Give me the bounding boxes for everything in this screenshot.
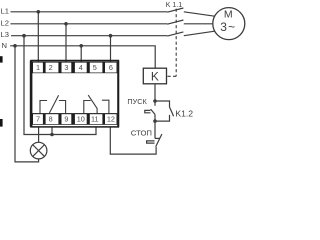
wire terminal 12 to stop loop [110, 127, 156, 154]
svg-text:L2: L2 [1, 19, 9, 28]
terminal 2 [46, 63, 59, 73]
contact K1.2 arm [170, 107, 174, 116]
node N-left [13, 44, 17, 48]
lamp HL [30, 142, 47, 159]
wire L3 to terminal 6 [110, 36, 112, 62]
terminal 11 [90, 114, 103, 124]
terminal 5 [90, 63, 103, 73]
mechanical link dashed [175, 9, 177, 77]
node L3-left [22, 34, 26, 38]
relay contact 7-8-9 fixed 9 [59, 101, 66, 114]
terminal 9 [62, 114, 72, 124]
svg-text:СТОП: СТОП [131, 129, 152, 138]
wire N rail to coil K [10, 46, 155, 68]
svg-text:L3: L3 [1, 30, 9, 39]
node N-terminal4 [79, 44, 83, 48]
contact K1.1 pole 3 arm [167, 32, 183, 36]
start button actuator [145, 110, 151, 112]
motor M [213, 8, 245, 40]
svg-text:4: 4 [79, 63, 83, 72]
relay contact 7-8-9 arm 8 [49, 95, 58, 113]
svg-text:N: N [2, 41, 7, 50]
stop button fixed nub [155, 137, 160, 139]
wire terminal 7 to lamp [38, 127, 40, 142]
contactor coil K [143, 68, 166, 84]
relay contact 10-11-12 arm 11 [88, 95, 97, 113]
contactor contacts K1.1 [166, 2, 215, 76]
svg-text:K: K [151, 69, 159, 83]
node branch bottom [153, 119, 157, 123]
wire pole3 to motor [184, 31, 215, 36]
din rail mark upper [0, 56, 3, 62]
wire pole2 to motor [184, 23, 213, 25]
svg-text:5: 5 [93, 63, 97, 72]
terminal 4 [75, 63, 87, 73]
relay device box [31, 61, 118, 127]
relay contact 10-11-12 fixed 12 [102, 100, 109, 113]
relay contact 10-11-12 fixed 10 [84, 101, 91, 114]
terminal 12 [105, 114, 117, 124]
node L1-terminal1 [37, 10, 41, 14]
stop button arm [156, 134, 162, 147]
svg-text:10: 10 [77, 115, 85, 124]
svg-text:ПУСК: ПУСК [127, 97, 147, 106]
svg-text:3: 3 [64, 63, 68, 72]
svg-text:K1.2: K1.2 [175, 109, 193, 119]
svg-text:7: 7 [36, 115, 40, 124]
svg-text:M: M [224, 9, 233, 21]
wire K1.2 branch top [155, 101, 170, 107]
wire L1 to terminal 1 [37, 12, 39, 62]
din rail mark lower [0, 119, 3, 127]
start button arm [151, 109, 155, 114]
svg-text:11: 11 [91, 115, 99, 124]
node L3-terminal6 [109, 34, 113, 38]
stop button actuator [147, 141, 155, 143]
terminal strip lower background [32, 113, 117, 125]
wire K1.2 branch bottom [155, 115, 170, 121]
wire N to terminal 4 [80, 46, 82, 62]
terminal 8 [46, 114, 59, 124]
node branch top [153, 99, 157, 103]
relay contact 7-8-9 fixed 7 [40, 101, 47, 114]
terminal 6 [105, 63, 117, 73]
wire L3 rail [11, 35, 167, 37]
wire L3 down-left to terminals 8 and 11 [24, 36, 96, 135]
svg-text:12: 12 [107, 115, 115, 124]
wire start button lower [154, 114, 156, 138]
svg-text:L1: L1 [1, 7, 9, 16]
terminal 3 [62, 63, 72, 73]
contact K1.1 pole 2 arm [167, 20, 183, 24]
wire N down-left to lamp bottom [15, 46, 39, 162]
wire L2 to terminal 3 [65, 24, 67, 62]
terminal 1 [33, 63, 43, 73]
wire L1 rail [11, 11, 168, 13]
terminal strip upper background [32, 62, 117, 74]
svg-text:3~: 3~ [220, 20, 236, 34]
node terminal8-junction [50, 133, 54, 137]
wire terminal 8 drop [51, 127, 53, 134]
node L2-terminal3 [64, 22, 68, 26]
svg-text:K 1.1: K 1.1 [166, 2, 182, 9]
svg-text:1: 1 [36, 63, 40, 72]
terminal 7 [33, 114, 43, 124]
contact K1.1 pole 1 arm [167, 8, 183, 12]
terminal row 1-6 [33, 63, 117, 73]
svg-text:6: 6 [109, 63, 113, 72]
wire L2 rail [11, 23, 168, 25]
svg-text:2: 2 [49, 63, 53, 72]
terminal 10 [75, 114, 87, 124]
svg-text:9: 9 [64, 115, 68, 124]
terminal row 7-12 [33, 114, 117, 124]
wire pole1 to motor [184, 12, 215, 16]
wire coil K to start branch [154, 84, 156, 106]
svg-text:8: 8 [49, 115, 53, 124]
